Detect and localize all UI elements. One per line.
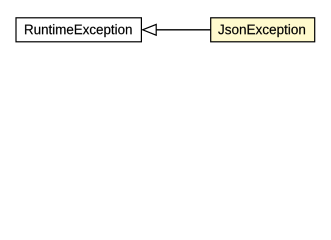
- label RuntimeException: [25, 24, 132, 37]
- label JsonException: [218, 24, 305, 37]
- background: [0, 0, 331, 59]
- class box RuntimeException: [16, 18, 141, 42]
- class box JsonException (highlighted): [211, 18, 315, 42]
- wire: generalization connector line: [156, 29, 211, 31]
- hollow triangle arrowhead (extends): [143, 24, 157, 35]
